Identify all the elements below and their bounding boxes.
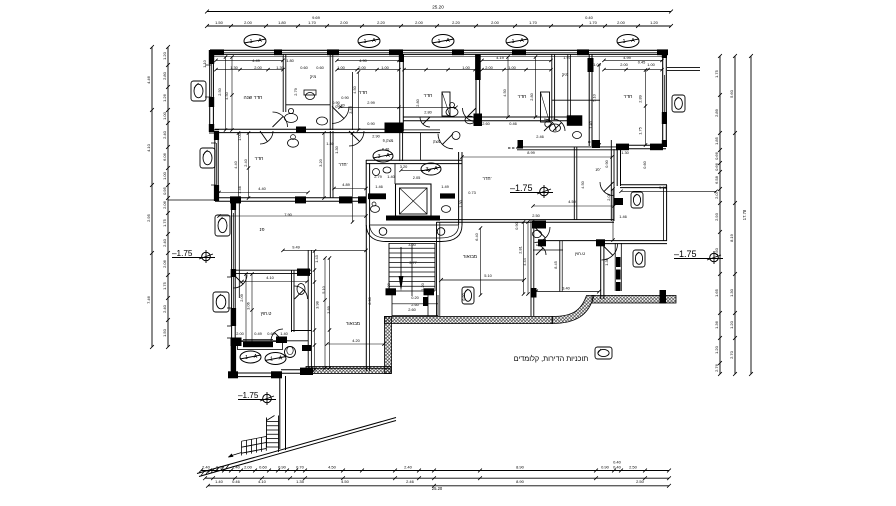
svg-text:1.75: 1.75 xyxy=(638,127,643,135)
svg-text:2.00: 2.00 xyxy=(491,20,500,25)
svg-text:2.09: 2.09 xyxy=(239,294,244,302)
svg-text:2.05: 2.05 xyxy=(413,175,421,180)
svg-text:5.60: 5.60 xyxy=(729,89,734,98)
svg-text:0.20: 0.20 xyxy=(411,295,419,300)
svg-text:1.40: 1.40 xyxy=(326,141,334,146)
svg-text:25.20: 25.20 xyxy=(432,486,443,491)
svg-text:0.90: 0.90 xyxy=(461,292,466,300)
svg-text:17.78: 17.78 xyxy=(742,209,747,220)
svg-text:2.20: 2.20 xyxy=(377,20,386,25)
svg-text:2.46: 2.46 xyxy=(536,134,544,139)
svg-text:1.00: 1.00 xyxy=(162,111,167,120)
svg-text:1.40: 1.40 xyxy=(215,479,224,484)
svg-text:2.95: 2.95 xyxy=(146,213,151,222)
svg-text:1: 1 xyxy=(437,39,440,45)
svg-text:0.49: 0.49 xyxy=(254,331,262,336)
svg-text:2.40: 2.40 xyxy=(162,238,167,247)
svg-text:2.50: 2.50 xyxy=(217,87,222,95)
svg-text:2.93: 2.93 xyxy=(714,212,719,221)
svg-text:3.20: 3.20 xyxy=(400,164,408,169)
svg-text:2.06: 2.06 xyxy=(162,200,167,209)
svg-text:1.30: 1.30 xyxy=(621,150,629,155)
svg-text:2.76: 2.76 xyxy=(714,363,719,372)
svg-text:ט.חוץ: ט.חוץ xyxy=(261,311,272,316)
svg-text:0.60: 0.60 xyxy=(642,160,647,168)
svg-text:2.89: 2.89 xyxy=(638,95,643,103)
svg-text:8.90: 8.90 xyxy=(516,479,525,484)
svg-text:2.81: 2.81 xyxy=(518,246,523,254)
svg-text:2.00: 2.00 xyxy=(485,65,493,70)
svg-text:9.69: 9.69 xyxy=(312,15,321,20)
svg-text:1.20: 1.20 xyxy=(650,20,659,25)
svg-text:1.46: 1.46 xyxy=(237,186,242,194)
svg-text:4.46: 4.46 xyxy=(146,75,151,84)
svg-text:1: 1 xyxy=(249,39,252,45)
svg-text:A: A xyxy=(446,38,450,44)
svg-text:0.90: 0.90 xyxy=(601,464,610,469)
svg-text:–1.75: –1.75 xyxy=(510,183,533,193)
svg-text:1.40: 1.40 xyxy=(588,120,593,128)
svg-text:1.00: 1.00 xyxy=(237,132,242,140)
svg-text:–1.75: –1.75 xyxy=(172,249,193,258)
svg-text:1.10: 1.10 xyxy=(202,59,207,67)
svg-text:פנ: פנ xyxy=(260,227,265,233)
svg-text:2.00: 2.00 xyxy=(244,20,253,25)
svg-text:ט.חוץ: ט.חוץ xyxy=(575,251,585,256)
svg-text:8.45: 8.45 xyxy=(553,261,558,269)
svg-text:4.89: 4.89 xyxy=(342,182,350,187)
svg-text:7.90: 7.90 xyxy=(284,212,292,217)
svg-text:חדר: חדר xyxy=(424,93,433,99)
svg-text:6.40: 6.40 xyxy=(474,232,479,240)
svg-text:1.97: 1.97 xyxy=(563,55,571,60)
svg-text:1.00: 1.00 xyxy=(462,65,470,70)
svg-text:0.46: 0.46 xyxy=(232,479,241,484)
svg-text:A: A xyxy=(258,38,262,44)
svg-text:1.50: 1.50 xyxy=(215,20,224,25)
svg-text:1.00: 1.00 xyxy=(162,171,167,180)
svg-text:1.30: 1.30 xyxy=(334,145,339,153)
svg-text:2.06: 2.06 xyxy=(162,259,167,268)
svg-text:1.49: 1.49 xyxy=(441,184,449,189)
svg-text:חדר: חדר xyxy=(359,90,368,96)
svg-text:4.10: 4.10 xyxy=(146,143,151,152)
svg-text:1.20: 1.20 xyxy=(420,282,425,290)
svg-text:1.30: 1.30 xyxy=(458,199,463,207)
svg-text:8.19: 8.19 xyxy=(729,233,734,242)
svg-text:4.50: 4.50 xyxy=(502,88,507,96)
svg-text:מבואור: מבואור xyxy=(346,322,360,327)
svg-text:4.40: 4.40 xyxy=(258,186,266,191)
svg-text:1: 1 xyxy=(511,39,514,45)
svg-text:1.30: 1.30 xyxy=(729,288,734,297)
svg-text:2.89: 2.89 xyxy=(714,108,719,117)
svg-text:0.70: 0.70 xyxy=(296,464,305,469)
svg-text:2.00: 2.00 xyxy=(244,464,253,469)
svg-text:0.66: 0.66 xyxy=(714,162,719,171)
svg-text:0.90: 0.90 xyxy=(278,464,287,469)
svg-text:4.90: 4.90 xyxy=(359,58,367,63)
svg-text:2.50: 2.50 xyxy=(532,213,540,218)
svg-text:0.40: 0.40 xyxy=(613,464,622,469)
svg-text:6.90: 6.90 xyxy=(367,296,372,304)
svg-text:1.50: 1.50 xyxy=(162,328,167,337)
svg-text:1.36: 1.36 xyxy=(604,258,609,266)
svg-text:חדר: חדר xyxy=(255,156,264,162)
svg-text:1: 1 xyxy=(363,39,366,45)
svg-text:A: A xyxy=(386,153,390,159)
svg-text:2.79: 2.79 xyxy=(293,88,298,96)
svg-text:A: A xyxy=(520,38,524,44)
svg-text:2.00: 2.00 xyxy=(340,20,349,25)
svg-text:1.00: 1.00 xyxy=(337,65,345,70)
svg-text:2.99: 2.99 xyxy=(367,100,375,105)
svg-text:2.80: 2.80 xyxy=(162,71,167,80)
svg-text:תוכניות הדירות, קלומדים: תוכניות הדירות, קלומדים xyxy=(514,354,589,363)
svg-text:4.40: 4.40 xyxy=(233,160,238,168)
svg-text:פנ': פנ' xyxy=(596,167,601,172)
svg-text:חדר: חדר xyxy=(624,94,633,100)
svg-text:2.80: 2.80 xyxy=(415,98,420,106)
svg-text:חדר: חדר xyxy=(518,94,527,100)
svg-text:4.50: 4.50 xyxy=(328,464,337,469)
svg-text:A: A xyxy=(631,38,635,44)
svg-text:3.49: 3.49 xyxy=(348,106,353,114)
svg-text:2.80: 2.80 xyxy=(424,110,432,115)
svg-text:4.10: 4.10 xyxy=(266,275,274,280)
svg-text:0.90: 0.90 xyxy=(514,221,519,229)
svg-text:3: 3 xyxy=(377,154,380,160)
svg-text:6.06: 6.06 xyxy=(162,152,167,161)
svg-text:8.46: 8.46 xyxy=(382,147,390,152)
svg-text:1.75: 1.75 xyxy=(714,69,719,78)
svg-text:3.40: 3.40 xyxy=(562,286,570,291)
svg-text:1.30: 1.30 xyxy=(230,65,238,70)
svg-text:4.20: 4.20 xyxy=(352,338,360,343)
svg-text:2.50: 2.50 xyxy=(629,464,638,469)
svg-text:1.00: 1.00 xyxy=(381,65,389,70)
svg-text:4.49: 4.49 xyxy=(252,58,260,63)
svg-text:0.60: 0.60 xyxy=(300,65,308,70)
svg-text:מצק,פ: מצק,פ xyxy=(383,138,394,143)
svg-text:2.46: 2.46 xyxy=(406,479,415,484)
svg-text:2.40: 2.40 xyxy=(404,464,413,469)
svg-text:5.10: 5.10 xyxy=(321,285,326,293)
svg-text:0.96: 0.96 xyxy=(335,104,343,109)
svg-text:2.07: 2.07 xyxy=(714,190,719,199)
svg-text:1: 1 xyxy=(245,355,248,361)
svg-text:5.10: 5.10 xyxy=(592,93,597,101)
svg-text:2.07: 2.07 xyxy=(606,193,611,201)
svg-text:1.70: 1.70 xyxy=(589,20,598,25)
svg-text:2.40: 2.40 xyxy=(202,464,211,469)
svg-text:0.60: 0.60 xyxy=(316,65,324,70)
svg-text:2.80: 2.80 xyxy=(529,92,534,100)
svg-text:1.26: 1.26 xyxy=(162,93,167,102)
svg-text:מיק: מיק xyxy=(562,72,569,77)
svg-text:0.46: 0.46 xyxy=(509,121,517,126)
svg-text:3.06: 3.06 xyxy=(246,302,251,310)
svg-text:2.79: 2.79 xyxy=(374,174,382,179)
svg-text:1.00: 1.00 xyxy=(593,62,601,67)
svg-text:0.73: 0.73 xyxy=(468,190,476,195)
svg-text:4.59: 4.59 xyxy=(568,199,576,204)
svg-text:2.00: 2.00 xyxy=(358,65,366,70)
svg-text:1.70: 1.70 xyxy=(529,20,538,25)
svg-text:0.40: 0.40 xyxy=(613,460,622,465)
svg-text:5.36: 5.36 xyxy=(659,185,667,190)
svg-text:1: 1 xyxy=(270,357,273,363)
svg-text:2.00: 2.00 xyxy=(236,331,244,336)
svg-text:1.50: 1.50 xyxy=(714,247,719,256)
svg-text:חדר': חדר' xyxy=(339,162,348,167)
svg-text:1.35: 1.35 xyxy=(296,479,305,484)
svg-text:מצק': מצק' xyxy=(433,139,441,144)
svg-text:1.00: 1.00 xyxy=(508,65,516,70)
svg-text:1.40: 1.40 xyxy=(280,331,288,336)
svg-text:2.60: 2.60 xyxy=(408,307,416,312)
svg-text:2.60: 2.60 xyxy=(482,121,490,126)
svg-text:1.75: 1.75 xyxy=(162,218,167,227)
svg-text:4.10: 4.10 xyxy=(258,479,267,484)
svg-text:8.90: 8.90 xyxy=(516,464,525,469)
svg-text:–1.75: –1.75 xyxy=(238,391,259,400)
svg-text:A: A xyxy=(279,356,283,362)
svg-text:5.10: 5.10 xyxy=(484,273,492,278)
svg-text:0.60: 0.60 xyxy=(267,331,275,336)
svg-text:0.95: 0.95 xyxy=(162,186,167,195)
svg-text:2.50: 2.50 xyxy=(636,479,645,484)
svg-text:0.45: 0.45 xyxy=(638,60,646,65)
svg-text:3.89: 3.89 xyxy=(326,306,331,314)
svg-text:2.40: 2.40 xyxy=(243,158,248,166)
svg-text:7.46: 7.46 xyxy=(146,295,151,304)
svg-text:0.90: 0.90 xyxy=(604,159,609,167)
svg-text:2.20: 2.20 xyxy=(452,20,461,25)
svg-text:0.90: 0.90 xyxy=(341,95,349,100)
svg-text:4.99: 4.99 xyxy=(623,55,631,60)
svg-text:1.20: 1.20 xyxy=(162,51,167,60)
svg-text:3.77: 3.77 xyxy=(409,260,417,265)
svg-text:4.50: 4.50 xyxy=(341,479,350,484)
svg-text:1.46: 1.46 xyxy=(619,214,627,219)
svg-text:0.40: 0.40 xyxy=(585,15,594,20)
svg-text:0.60: 0.60 xyxy=(259,464,268,469)
svg-text:–1.75: –1.75 xyxy=(674,249,697,259)
svg-text:1.30: 1.30 xyxy=(386,282,391,290)
svg-text:1.75: 1.75 xyxy=(162,281,167,290)
svg-text:1.46: 1.46 xyxy=(375,184,383,189)
svg-text:2.00: 2.00 xyxy=(620,62,628,67)
svg-text:4.19: 4.19 xyxy=(496,55,504,60)
svg-text:1.43: 1.43 xyxy=(314,255,319,263)
svg-text:0.66: 0.66 xyxy=(714,151,719,160)
svg-text:2.90: 2.90 xyxy=(372,134,380,139)
svg-text:1: 1 xyxy=(622,39,625,45)
svg-text:2.00: 2.00 xyxy=(415,20,424,25)
svg-text:1.70: 1.70 xyxy=(308,20,317,25)
svg-text:4.50: 4.50 xyxy=(224,91,229,99)
svg-text:1.20: 1.20 xyxy=(729,320,734,329)
svg-text:1.65: 1.65 xyxy=(714,288,719,297)
svg-text:1.36: 1.36 xyxy=(714,320,719,329)
svg-text:2.40: 2.40 xyxy=(162,304,167,313)
svg-text:6.58: 6.58 xyxy=(714,175,719,184)
svg-text:25.20: 25.20 xyxy=(432,5,444,10)
svg-text:1.40: 1.40 xyxy=(387,174,395,179)
svg-text:2.00: 2.00 xyxy=(617,20,626,25)
svg-text:1.30: 1.30 xyxy=(276,65,284,70)
svg-text:2.70: 2.70 xyxy=(729,350,734,359)
svg-text:A: A xyxy=(434,166,438,172)
svg-text:מיק: מיק xyxy=(310,74,317,79)
svg-text:1.20: 1.20 xyxy=(714,345,719,354)
svg-text:A: A xyxy=(254,354,258,360)
svg-text:4.50: 4.50 xyxy=(352,85,357,93)
svg-text:4.44: 4.44 xyxy=(522,257,527,265)
svg-text:4.50: 4.50 xyxy=(580,180,585,188)
svg-text:2.40: 2.40 xyxy=(162,130,167,139)
svg-text:8.99: 8.99 xyxy=(527,150,535,155)
svg-text:מבואור: מבואור xyxy=(463,255,477,260)
svg-text:3.98: 3.98 xyxy=(315,301,320,309)
svg-text:3.00: 3.00 xyxy=(408,242,416,247)
svg-text:1.80: 1.80 xyxy=(278,20,287,25)
svg-text:1.85: 1.85 xyxy=(714,136,719,145)
svg-text:0.90: 0.90 xyxy=(367,121,375,126)
svg-text:3.20: 3.20 xyxy=(318,158,323,166)
svg-text:A: A xyxy=(372,38,376,44)
svg-text:1.00: 1.00 xyxy=(647,62,655,67)
svg-text:חדר': חדר' xyxy=(483,176,492,181)
svg-text:9.49: 9.49 xyxy=(292,245,300,250)
svg-text:1.80: 1.80 xyxy=(286,58,294,63)
svg-text:חדר שנה: חדר שנה xyxy=(244,95,263,101)
svg-text:2.00: 2.00 xyxy=(254,65,262,70)
